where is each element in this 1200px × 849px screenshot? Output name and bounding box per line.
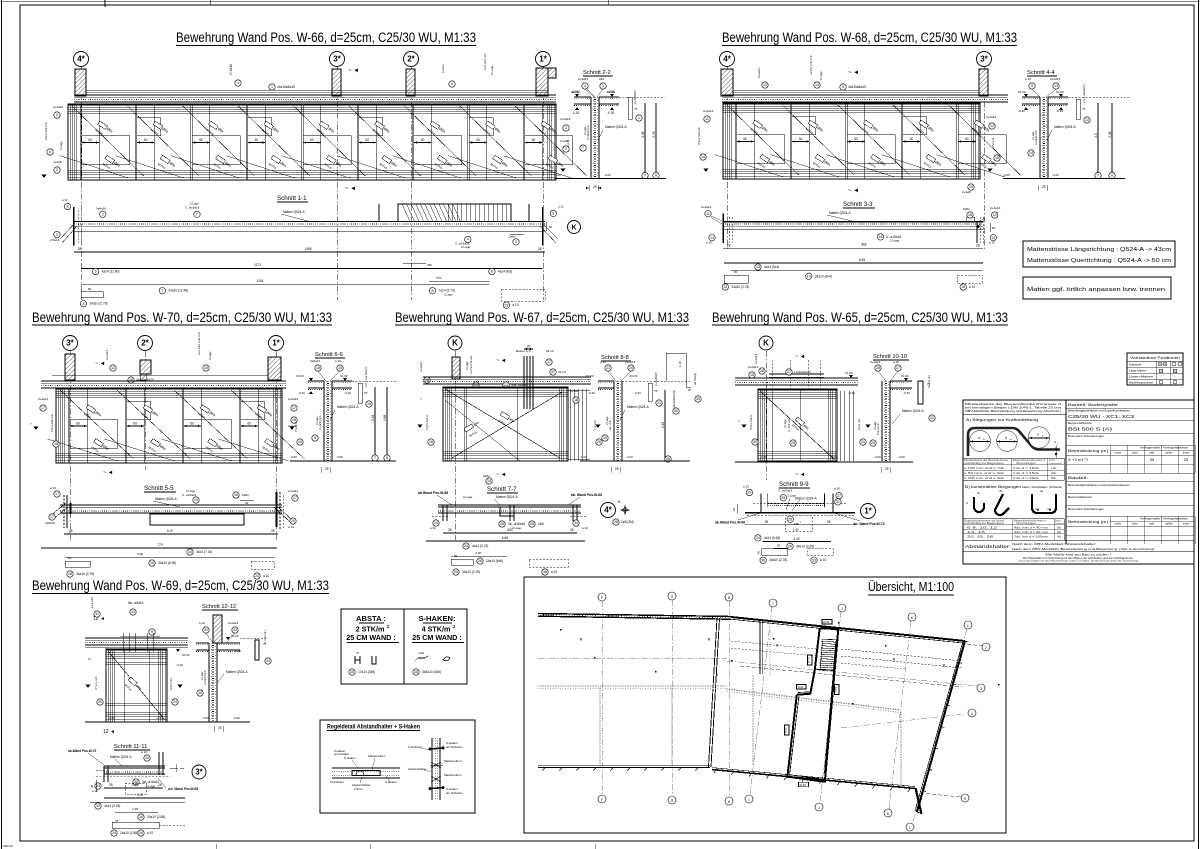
svg-text:60: 60 [476, 138, 480, 142]
svg-text:Besondere Anforderungen: Besondere Anforderungen [1068, 508, 1105, 511]
svg-text:8: 8 [655, 174, 657, 178]
svg-text:33: 33 [812, 558, 816, 562]
svg-text:-0.30: -0.30 [903, 391, 910, 395]
bend table A [963, 458, 1064, 480]
grid bubble B bottom [668, 796, 676, 804]
svg-text:-0.30: -0.30 [1056, 109, 1063, 113]
svg-text:6.98: 6.98 [137, 552, 143, 556]
svg-text:28: 28 [538, 247, 542, 251]
horizontal grid line 3 [841, 714, 964, 728]
svg-text:8: 8 [67, 205, 69, 209]
grid bubble F top [908, 613, 916, 621]
svg-text:2: 2 [985, 646, 987, 650]
svg-text:8: 8 [1111, 174, 1113, 178]
svg-text:rechtwinklig zur Biegeebene: rechtwinklig zur Biegeebene [964, 522, 1005, 525]
svg-text:br: br [983, 438, 985, 441]
svg-text:17: 17 [50, 515, 54, 519]
svg-text:16: 16 [139, 831, 143, 835]
svg-text:19: 19 [150, 561, 154, 565]
grid line 4* W68 [726, 67, 728, 250]
svg-text:2.48: 2.48 [661, 422, 665, 428]
svg-text:2+2ø14: 2+2ø14 [701, 205, 712, 209]
svg-text:2.Lage: 2.Lage [463, 495, 473, 499]
svg-text:16: 16 [139, 815, 143, 819]
svg-text:1.65: 1.65 [793, 527, 799, 531]
row Abstandshalter [963, 539, 1194, 541]
svg-text:1459: 1459 [304, 247, 311, 251]
svg-text:34a10 (2.78): 34a10 (2.78) [462, 570, 480, 574]
svg-text:≤ (1ø1*): ≤ (1ø1*) [1068, 458, 1088, 462]
grid bubble 2* [404, 52, 419, 67]
svg-text:16: 16 [129, 378, 133, 382]
svg-text:28: 28 [78, 247, 82, 251]
svg-text:Bauteil:: Bauteil: [1068, 476, 1088, 480]
svg-text:2: 2 [56, 113, 58, 117]
svg-text:3+2ø14: 3+2ø14 [228, 621, 239, 625]
svg-text:60: 60 [310, 138, 314, 142]
svg-text:Matten Q524-A: Matten Q524-A [337, 405, 359, 409]
svg-text:Nach dem ÖBV-Merkblatt 'Abstan: Nach dem ÖBV-Merkblatt 'Abstandshalter' [1012, 542, 1097, 546]
levels Schnitt 4-4 [1024, 94, 1028, 97]
svg-text:3...ø16a16: 3...ø16a16 [778, 489, 793, 493]
grid line K W67 [454, 351, 456, 540]
svg-text:unten: unten [1115, 451, 1122, 455]
svg-text:2.5t/m: 2.5t/m [354, 787, 363, 791]
svg-text:34a10 (6.98): 34a10 (6.98) [158, 561, 176, 565]
svg-text:3ø 20ü(4): 3ø 20ü(4) [693, 373, 697, 385]
svg-text:2+4ø8: 2+4ø8 [962, 190, 971, 194]
svg-text:630: 630 [507, 528, 513, 532]
svg-text:ab. Wand Pos.W-66: ab. Wand Pos.W-66 [571, 493, 602, 497]
svg-text:60: 60 [255, 138, 259, 142]
svg-text:Betondeckung (m): Betondeckung (m) [1068, 449, 1108, 453]
svg-text:2.Lage: 2.Lage [444, 293, 453, 297]
svg-text:4ds, min d = 64 mm: 4ds, min d = 64 mm [1014, 531, 1048, 534]
annotation Schnitt 1-1 right [465, 236, 471, 242]
svg-text:60: 60 [532, 138, 536, 142]
plan tag 5 [785, 725, 790, 735]
svg-text:unten: unten [1115, 522, 1122, 526]
svg-text:18: 18 [879, 235, 883, 239]
svg-text:60: 60 [854, 137, 858, 141]
svg-text:27: 27 [837, 494, 841, 498]
svg-text:25: 25 [781, 496, 785, 500]
page outer border [1, 0, 3, 849]
svg-text:-3.00: -3.00 [554, 173, 561, 177]
svg-text:13: 13 [993, 213, 997, 217]
svg-text:17a10ø6a16: 17a10ø6a16 [794, 370, 811, 374]
svg-text:4: 4 [451, 82, 453, 86]
box Regeldetail [320, 720, 475, 813]
slab band W-70 [41, 380, 286, 382]
svg-text:18: 18 [316, 366, 320, 370]
svg-text:18: 18 [292, 418, 296, 422]
svg-text:25: 25 [885, 467, 889, 471]
dimension rows W-68 [723, 247, 983, 249]
svg-text:11: 11 [706, 212, 710, 216]
svg-text:Bewehrung Wand Pos. W-66, d=25: Bewehrung Wand Pos. W-66, d=25cm, C25/30… [176, 30, 476, 45]
svg-text:✕: ✕ [707, 637, 711, 642]
svg-text:bei einmaligem Biegen ( DIN 10: bei einmaligem Biegen ( DIN 1045-1, Tabe… [965, 406, 1062, 410]
svg-text:28: 28 [765, 520, 769, 524]
svg-text:Beschriftungsschlüssel: Beschriftungsschlüssel [1129, 380, 1153, 384]
svg-text:10 ø ü.K.: 10 ø ü.K. [857, 418, 861, 430]
svg-text:Bewehrung Wand Pos. W-69, d=25: Bewehrung Wand Pos. W-69, d=25cm, C25/30… [32, 578, 329, 593]
insulation vertical 2 [671, 688, 673, 766]
svg-text:a.b. Wand Pos.W-68: a.b. Wand Pos.W-68 [168, 787, 198, 791]
bend table B [963, 519, 1064, 540]
annotation Schnitt 5-5 [54, 491, 60, 497]
grid bubble E bottom [815, 803, 823, 811]
svg-text:2+2ø14: 2+2ø14 [419, 361, 423, 372]
svg-text:W-68: W-68 [835, 686, 838, 692]
svg-text:innen: innen [1183, 522, 1190, 526]
svg-text:-3.00: -3.00 [1052, 173, 1059, 177]
svg-text:2ø6ü: 2ø6ü [509, 235, 516, 239]
grid bubble 4* W68 [720, 52, 735, 67]
svg-text:d: d [978, 436, 980, 440]
svg-text:95: 95 [992, 226, 996, 230]
grid line B [671, 600, 673, 795]
svg-text:Listen-Matten: Listen-Matten [1129, 374, 1154, 378]
svg-text:a 10: a 10 [512, 303, 518, 307]
svg-text:28: 28 [448, 528, 452, 532]
svg-text:6*ø ü.Stk.ü.K.: 6*ø ü.Stk.ü.K. [50, 413, 54, 432]
svg-text:60: 60 [247, 422, 251, 426]
svg-text:±0.00: ±0.00 [1018, 90, 1026, 94]
svg-text:25: 25 [788, 517, 792, 521]
grid line 1* W70 [275, 351, 277, 540]
svg-text:2+2ø14 ü.K.: 2+2ø14 ü.K. [203, 669, 207, 685]
svg-text:34a10 (3.35): 34a10 (3.35) [796, 544, 814, 548]
svg-text:2ø6a16: 2ø6a16 [310, 359, 321, 363]
svg-text:60: 60 [743, 137, 747, 141]
grid line 3* W70 [69, 351, 71, 540]
bottom-left ticks [543, 768, 546, 771]
Regeldetail left detail [332, 767, 400, 769]
svg-text:3+4ø8: 3+4ø8 [53, 160, 62, 164]
ground line Schnitt 6-6 [290, 460, 396, 462]
svg-text:a 10: a 10 [199, 621, 205, 625]
bottom annotation W68 [968, 184, 974, 190]
dashed corridor lines right of core [841, 649, 962, 661]
bottom right wall stub [916, 788, 922, 814]
svg-text:6.86: 6.86 [502, 536, 508, 540]
svg-text:-3.00: -3.00 [760, 455, 767, 459]
svg-text:rechtwinklig zur Biegeebene: rechtwinklig zur Biegeebene [964, 462, 1005, 465]
svg-text:~ ◄: ~ ◄ [95, 361, 105, 367]
svg-text:34a10 (8x4): 34a10 (8x4) [815, 274, 832, 278]
wall elevation W-67 [443, 387, 568, 461]
svg-text:Besondere Anforderungen: Besondere Anforderungen [1068, 435, 1105, 438]
svg-text:2+2ø14: 2+2ø14 [754, 353, 758, 364]
svg-text:2.68: 2.68 [383, 415, 387, 421]
svg-text:60: 60 [88, 138, 92, 142]
svg-text:br: br [1010, 438, 1012, 441]
svg-text:a 10: a 10 [147, 831, 153, 835]
grid bubble A top [598, 593, 606, 601]
svg-text:60: 60 [365, 138, 369, 142]
core right wall [825, 630, 838, 782]
svg-text:F: F [601, 596, 603, 600]
svg-text:80: 80 [454, 554, 458, 558]
svg-text:Matten Q524-A: Matten Q524-A [1054, 125, 1076, 129]
svg-text:a 10: a 10 [820, 558, 826, 562]
svg-text:a 10: a 10 [50, 486, 56, 490]
svg-text:ø16: ø16 [599, 77, 605, 81]
svg-text:24: 24 [173, 700, 177, 704]
svg-text:2.0: 2.0 [1094, 133, 1098, 138]
svg-text:75: 75 [364, 391, 368, 395]
svg-text:2.10: 2.10 [137, 793, 143, 797]
building left edge [709, 618, 718, 767]
svg-text:ÖBV-Merkblatt 'Betondeckung un: ÖBV-Merkblatt 'Betondeckung und Bewehrun… [965, 409, 1061, 413]
svg-text:I: I [749, 798, 750, 802]
svg-text:3: 3 [565, 147, 567, 151]
svg-text:4a14 (7.34): 4a14 (7.34) [196, 550, 212, 554]
svg-text:Betondeckung (m): Betondeckung (m) [1068, 520, 1108, 524]
grid bubble G bottom [906, 823, 914, 831]
table Vorhandene Positionen [1127, 353, 1183, 385]
grid bubble 3* [330, 52, 345, 67]
svg-text:4ds, min d = 40 mm: 4ds, min d = 40 mm [1014, 527, 1048, 530]
svg-text:a 10: a 10 [834, 486, 840, 490]
ground line W-65 [735, 461, 913, 463]
svg-text:✕: ✕ [579, 637, 583, 642]
svg-text:3ø4a16ü(1.M): 3ø4a16ü(1.M) [672, 390, 676, 408]
svg-text:2.Lage: 2.Lage [890, 239, 900, 243]
side dim Schnitt 11-11 [95, 780, 97, 792]
svg-text:Besten ü.S.: Besten ü.S. [516, 349, 532, 353]
svg-text:2*: 2* [141, 339, 149, 348]
svg-text:-3.00: -3.00 [604, 173, 611, 177]
svg-text:und insbesondere mit den Pläne: und insbesondere mit den Plänen/Details … [1018, 560, 1139, 563]
svg-text:60: 60 [76, 422, 80, 426]
wall elevation W-66 [68, 104, 556, 180]
svg-text:W-65: W-65 [800, 783, 807, 787]
core left mid wall [810, 670, 814, 694]
svg-text:17: 17 [547, 360, 551, 364]
svg-text:Betonstahlsorte: Betonstahlsorte [1068, 496, 1093, 499]
svg-text:2ø6a16: 2ø6a16 [45, 521, 56, 525]
svg-text:~ ◄: ~ ◄ [345, 186, 356, 192]
svg-text:-3.00: -3.00 [626, 455, 633, 459]
svg-text:-3.00: -3.00 [1003, 173, 1010, 177]
svg-text:34a10 (12.48): 34a10 (12.48) [168, 289, 188, 293]
svg-text:S-HAKEN:: S-HAKEN: [418, 614, 455, 623]
svg-text:Schnitt 7-7: Schnitt 7-7 [487, 486, 517, 493]
footer notes table [963, 551, 1194, 553]
svg-text:3*: 3* [333, 55, 341, 64]
svg-text:14: 14 [701, 155, 705, 159]
svg-text:4*: 4* [604, 506, 612, 515]
svg-text:24: 24 [112, 831, 116, 835]
annotation Schnitt 9-9 [746, 489, 752, 495]
svg-text:24: 24 [629, 366, 633, 370]
svg-text:innen: innen [1183, 451, 1190, 455]
svg-text:25: 25 [615, 467, 619, 471]
svg-text:4: 4 [237, 81, 239, 85]
svg-text:Schnitt 9-9: Schnitt 9-9 [779, 481, 809, 488]
svg-text:8: 8 [386, 456, 388, 460]
column 3* W68 [979, 69, 988, 96]
svg-text:2.48: 2.48 [641, 131, 645, 137]
levels Schnitt 2-2 [575, 94, 579, 97]
svg-text:S-Haken: S-Haken [344, 756, 356, 760]
svg-text:14ds: 14ds [1051, 467, 1057, 470]
svg-text:2+2ø14: 2+2ø14 [986, 115, 997, 119]
svg-text:450: 450 [427, 263, 432, 267]
column 1* W70 [268, 357, 281, 380]
svg-text:10: 10 [145, 756, 149, 760]
grid bubble D bottom [745, 795, 753, 803]
svg-text:3...ø16a16: 3...ø16a16 [182, 493, 197, 497]
svg-text:a 10: a 10 [582, 526, 588, 530]
svg-text:Frontlinien: Frontlinien [330, 780, 344, 784]
svg-text:4: 4 [971, 712, 973, 716]
svg-text:9: 9 [842, 85, 844, 89]
svg-text:28: 28 [760, 369, 764, 373]
svg-text:29: 29 [747, 491, 751, 495]
svg-text:75: 75 [634, 107, 638, 111]
svg-text:~ ◄: ~ ◄ [795, 354, 805, 360]
svg-text:28: 28 [478, 559, 482, 563]
north symbol [621, 506, 630, 515]
S-HAKEN symbols [415, 656, 428, 661]
svg-text:2+2ø16ü(*): 2+2ø16ü(*) [633, 90, 637, 104]
dimension rows W-66 [74, 251, 545, 253]
svg-text:Schnitt 12-12: Schnitt 12-12 [202, 604, 236, 610]
svg-text:-3.00: -3.00 [108, 716, 115, 720]
svg-text:Bewehrung Wand Pos. W-67, d=25: Bewehrung Wand Pos. W-67, d=25cm, C25/30… [395, 310, 689, 325]
svg-text:Betonfestigkeitsklasse und Exp: Betonfestigkeitsklasse und Expositionskl… [1068, 410, 1131, 413]
svg-text:Mattenreihen: Mattenreihen [444, 759, 462, 763]
grid bubble right 4 [961, 794, 969, 802]
slab band W-67 [423, 376, 591, 378]
fold mark top [104, 0, 106, 7]
svg-text:2ø8ü: 2ø8ü [242, 493, 249, 497]
svg-text:~ ◄: ~ ◄ [848, 188, 859, 194]
svg-text:33: 33 [233, 628, 237, 632]
svg-text:3+4ø8: 3+4ø8 [560, 139, 569, 143]
svg-text:2+2ø14 ü.K.: 2+2ø14 ü.K. [318, 414, 322, 430]
svg-text:770: 770 [157, 543, 163, 547]
svg-text:14: 14 [188, 550, 192, 554]
svg-text:F: F [601, 798, 603, 802]
svg-text:±0.00: ±0.00 [182, 653, 190, 657]
grid bubble F bottom [884, 809, 892, 817]
slab band W-65 [735, 377, 858, 379]
svg-text:3ø6a16: 3ø6a16 [96, 207, 107, 211]
svg-text:1*: 1* [539, 55, 547, 64]
svg-text:Nach dem ÖBV-Merkblatt 'Betond: Nach dem ÖBV-Merkblatt 'Betondeckung und… [1012, 547, 1154, 551]
svg-text:6*ø ü.Ko.: 6*ø ü.Ko. [169, 677, 173, 690]
svg-text:Matten ggf. örtlich anpassen b: Matten ggf. örtlich anpassen bzw. trenne… [1027, 287, 1165, 293]
svg-text:A) Biegungen zur Kraftumleitun: A) Biegungen zur Kraftumleitung [966, 418, 1038, 422]
svg-text:2.5ø16: 2.5ø16 [50, 238, 60, 242]
svg-text:24: 24 [487, 479, 491, 483]
svg-text:80: 80 [68, 556, 72, 560]
svg-text:29: 29 [791, 441, 795, 445]
ground line Schnitt 2-2 [555, 178, 666, 180]
svg-text:Matten Q524-A: Matten Q524-A [829, 211, 851, 215]
svg-text:75: 75 [1082, 107, 1086, 111]
svg-text:18: 18 [54, 442, 58, 446]
title block table [963, 400, 1194, 564]
svg-text:2+2ø16: 2+2ø16 [625, 360, 636, 364]
svg-text:Matten Q524-A: Matten Q524-A [155, 497, 177, 501]
svg-text:15: 15 [995, 156, 999, 160]
svg-text:7: 7 [1097, 174, 1099, 178]
svg-text:25: 25 [350, 670, 354, 674]
svg-text:-0.30: -0.30 [588, 391, 595, 395]
svg-text:-0.30: -0.30 [1018, 109, 1025, 113]
svg-text:2+2 ø16 ü.S.: 2+2 ø16 ü.S. [483, 53, 487, 70]
horizontal grid line 2 [740, 666, 962, 687]
svg-text:4: 4 [584, 84, 586, 88]
grid bubble D top [769, 599, 777, 607]
svg-text:4a14 (kst): 4a14 (kst) [498, 270, 512, 274]
slab band W-69 [85, 637, 188, 639]
svg-text:6 8, 10, 12: 6 8, 10, 12 [967, 526, 998, 530]
grid bubble K right [568, 221, 581, 234]
svg-text:35: 35 [1150, 457, 1155, 462]
svg-text:1*: 1* [864, 507, 872, 516]
big diagonal W69 [108, 651, 165, 720]
grid line 2* W70 [144, 351, 146, 470]
svg-text:44a15ø6a15: 44a15ø6a15 [277, 85, 295, 89]
building top edge [731, 617, 965, 641]
svg-text:25: 25 [1184, 457, 1189, 462]
svg-text:21: 21 [606, 366, 610, 370]
svg-text:3: 3 [980, 687, 982, 691]
svg-text:80: 80 [734, 270, 738, 274]
svg-text:29: 29 [788, 545, 792, 549]
wall elevation W-65 [758, 389, 837, 461]
svg-text:11: 11 [705, 117, 709, 121]
svg-text:✕: ✕ [942, 663, 946, 668]
dowel bars W67 [523, 356, 525, 409]
svg-text:27: 27 [896, 366, 900, 370]
grid bubble right 3 [968, 709, 976, 717]
svg-text:Stabstahl: Stabstahl [1129, 362, 1141, 366]
svg-text:75: 75 [356, 651, 360, 655]
svg-text:19: 19 [807, 275, 811, 279]
svg-text:570: 570 [436, 276, 441, 280]
svg-text:30: 30 [696, 397, 700, 401]
svg-text:1*: 1* [272, 339, 280, 348]
svg-text:Matten Q524-A: Matten Q524-A [795, 496, 817, 500]
svg-text:~ ◄: ~ ◄ [103, 470, 113, 476]
svg-text:~ ◄: ~ ◄ [348, 68, 359, 74]
svg-text:1.30: 1.30 [132, 783, 138, 787]
svg-text:3+2ø14: 3+2ø14 [703, 109, 714, 113]
grid bubble 4* [74, 52, 89, 67]
svg-text:Verlegemaße / Verlegehinweise: Verlegemaße / Verlegehinweise [1140, 518, 1189, 521]
svg-text:29: 29 [871, 441, 875, 445]
svg-text:2+2ø14: 2+2ø14 [990, 206, 1001, 210]
svg-text:28: 28 [69, 529, 73, 533]
svg-text:20, 25, 28: 20, 25, 28 [967, 535, 994, 539]
grid bubble 3* low [192, 765, 206, 779]
stair treads [822, 641, 836, 644]
svg-text:3* ø ü.ü.K.: 3* ø ü.ü.K. [94, 676, 98, 690]
svg-text:ab. Wand Pos.W-70: ab. Wand Pos.W-70 [854, 522, 885, 526]
svg-text:Matten Q524-A: Matten Q524-A [902, 409, 924, 413]
svg-text:3*: 3* [195, 768, 203, 777]
svg-text:±0.00: ±0.00 [901, 374, 909, 378]
svg-text:2+2ø16: 2+2ø16 [229, 64, 233, 75]
